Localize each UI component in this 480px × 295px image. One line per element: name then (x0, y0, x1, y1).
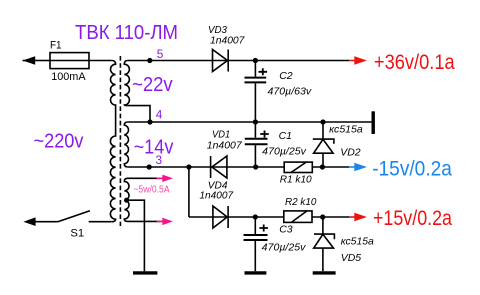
svg-text:4: 4 (156, 107, 163, 121)
svg-text:1n4007: 1n4007 (199, 190, 234, 202)
secondary winding 5w (124, 178, 161, 221)
5w bottom arrow (157, 220, 164, 222)
svg-text:100mA: 100mA (51, 71, 86, 83)
center tap (124, 198, 129, 203)
junction dot VD5 top (320, 214, 325, 219)
junction dot C1 bottom (253, 164, 258, 169)
secondary winding ~22v (124, 61, 129, 106)
svg-text:VD5: VD5 (341, 252, 362, 264)
svg-text:кс515а: кс515а (341, 235, 374, 247)
svg-text:C2: C2 (279, 70, 293, 82)
transformer core (119, 56, 121, 226)
svg-text:F1: F1 (50, 40, 62, 52)
wire 22v bottom to node 4 (128, 106, 150, 122)
svg-text:S1: S1 (70, 228, 84, 240)
mains left arrow (23, 60, 35, 62)
switch S1 contact wire (89, 221, 112, 223)
node 5 wire row (128, 60, 349, 62)
resistor R2 (284, 211, 312, 223)
capacitor C2 (253, 58, 258, 63)
svg-text:~22v: ~22v (132, 74, 173, 96)
fuse F1 (50, 53, 89, 69)
transformer primary winding (110, 61, 115, 222)
svg-text:ТВК 110-ЛМ: ТВК 110-ЛМ (75, 22, 178, 44)
svg-text:1n4007: 1n4007 (210, 35, 246, 47)
svg-text:+15v/0.2a: +15v/0.2a (373, 207, 452, 230)
svg-text:~5w/0.5A: ~5w/0.5A (133, 185, 169, 196)
svg-text:+36v/0.1a: +36v/0.1a (374, 51, 455, 74)
wire node3 down to VD4 row (188, 167, 190, 217)
node 3 dot (147, 164, 152, 169)
wire arrow to fuse (35, 60, 50, 62)
switch S1 left wire (35, 221, 58, 223)
svg-text:470µ/25v: 470µ/25v (262, 242, 306, 254)
svg-text:R2 k10: R2 k10 (285, 196, 317, 208)
+36v arrow (349, 60, 356, 62)
svg-text:~220v: ~220v (34, 130, 84, 152)
+15v arrow (349, 216, 356, 218)
svg-text:470µ/63v: 470µ/63v (268, 86, 312, 98)
node 5 dot (147, 58, 152, 63)
node 4 dot (147, 119, 152, 124)
svg-text:VD2: VD2 (340, 146, 361, 158)
ground bar under C3 (245, 271, 267, 274)
switch S1 blade (58, 211, 90, 222)
chassis bar (372, 111, 375, 134)
junction to VD4 branch (186, 164, 191, 169)
svg-text:C1: C1 (279, 130, 292, 142)
capacitor C3 (253, 214, 258, 219)
+15 row wire (189, 216, 349, 218)
zener VD5 (322, 217, 324, 234)
wire fuse to primary (89, 60, 112, 62)
secondary winding ~14v (124, 122, 128, 167)
ground bar under VD5 (313, 271, 336, 274)
zener VD2 (320, 119, 325, 124)
junction dot R1 right (320, 164, 325, 169)
svg-text:кс515а: кс515а (329, 124, 363, 136)
node 3 wire row (128, 166, 349, 168)
svg-text:3: 3 (156, 153, 163, 167)
diode VD1 (212, 156, 227, 178)
svg-text:C3: C3 (279, 224, 293, 236)
diode VD3 (213, 50, 228, 72)
capacitor C1 (253, 119, 258, 124)
5w top arrow (157, 177, 164, 179)
-15v arrow (349, 166, 356, 168)
svg-text:470µ/25v: 470µ/25v (262, 146, 306, 158)
svg-text:~14v: ~14v (134, 136, 174, 158)
node 4 wire row (128, 121, 372, 123)
svg-text:-15v/0.2a: -15v/0.2a (372, 157, 452, 180)
ground bar center tap (133, 271, 157, 274)
diode VD4 (213, 206, 227, 228)
svg-text:5: 5 (157, 47, 164, 61)
switch S1 arrow (23, 217, 35, 226)
resistor R1 (284, 162, 312, 172)
svg-text:1n4007: 1n4007 (207, 139, 243, 151)
svg-text:R1 k10: R1 k10 (280, 174, 312, 186)
